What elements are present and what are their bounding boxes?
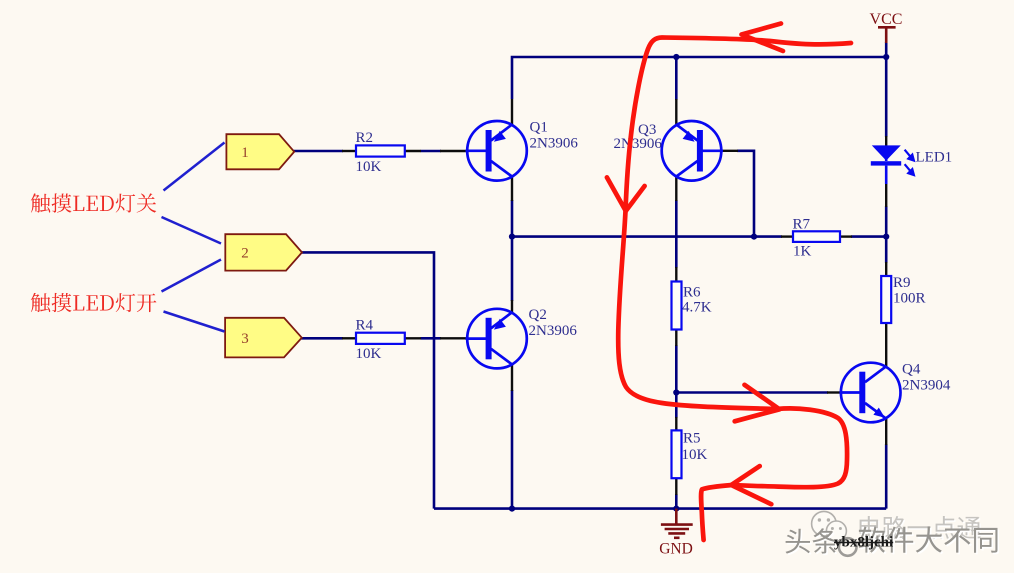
watermark text 1 [860, 516, 982, 540]
wire LED to middle rail [885, 206, 888, 237]
node bottom at Q2 [509, 506, 515, 512]
wire row1 R2 to Q1 [421, 150, 441, 153]
svg-text:2N3906: 2N3906 [530, 136, 579, 152]
node top at Q3 [673, 54, 679, 60]
svg-text:Q1: Q1 [530, 119, 548, 135]
pin Q3 collector [675, 177, 677, 202]
wire Q1 collector down [511, 200, 514, 237]
node top at VCC [883, 54, 889, 60]
svg-text:100R: 100R [893, 291, 926, 307]
wire VCC top to LED [885, 57, 888, 137]
wire middle rail left [512, 235, 782, 238]
svg-text:10K: 10K [682, 447, 708, 463]
pin R5 bottom [675, 478, 677, 495]
wire middle rail to R9 [885, 237, 888, 263]
svg-text:R2: R2 [356, 130, 374, 146]
pin LED bottom [885, 183, 887, 207]
wire Q3 base drop [737, 151, 754, 237]
connector 2 [225, 234, 302, 270]
wire bottom rail [434, 507, 886, 510]
svg-text:2N3906: 2N3906 [614, 136, 663, 152]
pin Q1 collector [511, 177, 513, 202]
transistor Q2 2N3906 [466, 309, 527, 369]
watermark text 2 [786, 526, 1000, 555]
pin R2 left [342, 150, 356, 152]
transistor Q1 2N3906 [466, 121, 527, 181]
pin R6 top [675, 267, 677, 282]
pin R2 right [405, 150, 421, 152]
connector 3 [225, 318, 302, 358]
svg-text:1K: 1K [793, 244, 812, 260]
pin Q4 emitter [885, 419, 887, 445]
pin Q1 base [440, 150, 467, 152]
node bottom at GND [673, 506, 679, 512]
svg-text:R7: R7 [793, 216, 811, 232]
pin Q2 emitter [511, 300, 513, 312]
wire node A down to R5 [675, 393, 678, 419]
resistor R5 [672, 430, 708, 478]
pin R9 bottom to Q4 collector [885, 323, 887, 367]
label touch LED on [31, 293, 157, 312]
watermark logo [812, 511, 847, 541]
wire Q3 emitter up [675, 57, 678, 100]
svg-text:3: 3 [241, 331, 249, 347]
resistor R2 [356, 130, 405, 175]
pin Q4 base [827, 391, 841, 393]
pin R7 left [781, 235, 794, 237]
pin Q1 emitter [511, 99, 513, 125]
connector 1 [226, 134, 294, 169]
svg-text:2N3904: 2N3904 [902, 377, 951, 393]
resistor R4 [356, 317, 405, 362]
pin R4 right [405, 337, 421, 339]
ground GND [659, 509, 693, 558]
svg-text:2: 2 [241, 246, 249, 262]
svg-text:R4: R4 [356, 317, 374, 333]
svg-text:GND: GND [659, 541, 693, 558]
wire row3 R4 to Q2 [421, 337, 441, 340]
svg-text:LED1: LED1 [916, 150, 953, 166]
node A R6 R5 Q4 [673, 389, 679, 395]
pin Q2 base [440, 337, 467, 339]
annotation loop path [618, 38, 851, 410]
pin R7 right [840, 235, 852, 237]
svg-text:10K: 10K [356, 346, 382, 362]
svg-text:R6: R6 [683, 285, 701, 301]
wire Q4 emitter to bottom rail [885, 444, 888, 509]
svg-text:2N3906: 2N3906 [529, 323, 578, 339]
wire Q2 collector down [511, 390, 514, 509]
wire callout 3 [162, 260, 222, 292]
annotation arrow right [735, 385, 780, 422]
wire R6 to node A [675, 345, 678, 393]
label touch LED off [31, 193, 156, 212]
pin R5 top [675, 417, 677, 431]
wire callout 4 [164, 312, 225, 332]
wire row3 conn3 to R4 [301, 337, 343, 340]
svg-text:ybx8ljchi: ybx8ljchi [834, 535, 893, 551]
wire R5 to bottom rail [675, 494, 678, 509]
node mid at Q1Q2 [509, 234, 515, 240]
svg-text:VCC: VCC [870, 11, 903, 28]
wire VCC stub lower [885, 42, 888, 58]
wire node A to Q4 base [676, 391, 828, 394]
svg-text:Q2: Q2 [529, 307, 547, 323]
power VCC [870, 11, 903, 43]
wire Q2 emitter up [511, 237, 514, 301]
node mid at Q3 base [751, 234, 757, 240]
svg-text:10K: 10K [356, 159, 382, 175]
resistor R9 [881, 275, 925, 323]
pin Q3 base [721, 150, 738, 152]
pin LED top [885, 136, 887, 146]
transistor Q3 2N3906 [662, 121, 723, 181]
wire middle rail right [851, 235, 886, 238]
annotation loop right [701, 408, 847, 540]
pin R9 top [885, 262, 887, 277]
svg-text:1: 1 [241, 145, 249, 161]
pin R4 left [342, 337, 356, 339]
wire top rail [512, 57, 886, 99]
pin Q2 collector [511, 364, 513, 391]
pin Q3 emitter [675, 99, 677, 125]
svg-text:Q4: Q4 [902, 362, 921, 378]
wire callout 1 [164, 143, 225, 191]
svg-text:R9: R9 [893, 275, 911, 291]
transistor Q4 2N3904 [840, 363, 901, 423]
node mid at LED [883, 234, 889, 240]
resistor R7 [793, 216, 841, 259]
annotation arrow mid [607, 177, 645, 211]
wire Q3 collector down to R6 [675, 200, 678, 268]
wire row1 conn1 to R2 [293, 150, 343, 153]
wire callout 2 [162, 217, 222, 244]
svg-text:R5: R5 [683, 430, 701, 446]
annotation arrow top [742, 24, 784, 52]
svg-text:4.7K: 4.7K [682, 300, 712, 316]
LED1 [871, 145, 952, 184]
pin R6 bottom [675, 330, 677, 347]
wire row2 conn2 right then down [301, 252, 434, 508]
annotation arrow left [731, 466, 771, 504]
resistor R6 [672, 282, 712, 330]
